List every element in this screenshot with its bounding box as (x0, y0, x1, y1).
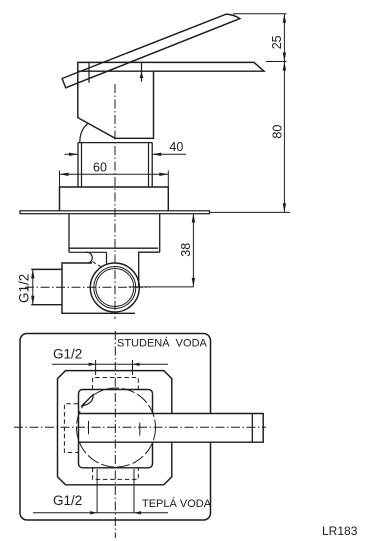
svg-text:60: 60 (93, 160, 107, 174)
svg-text:G1/2: G1/2 (53, 346, 82, 361)
dimension 60 line (60, 173, 169, 175)
connection circle inner (96, 269, 134, 307)
inlet port G1/2 (side view) (31, 269, 62, 304)
dimension 80 arrow down (283, 203, 286, 212)
port dimension line (32, 269, 34, 304)
connection circle outer (90, 263, 139, 312)
extension line to 38 dim (129, 286, 194, 288)
dimension 25 arrow down (283, 53, 286, 62)
neck outer right (151, 143, 153, 187)
dimension 25 arrow up (283, 14, 286, 23)
in-wall housing rectangle (69, 214, 160, 253)
dimension 40 arrow right (152, 153, 161, 156)
handle bar front (79, 414, 264, 443)
cold G1/2 dimension line (52, 363, 168, 365)
svg-text:40: 40 (169, 140, 183, 154)
svg-text:G1/2: G1/2 (53, 493, 82, 508)
port dimension arrow up (31, 269, 34, 278)
hot inlet extension left (96, 469, 98, 513)
dimension 38 arrow down (192, 278, 195, 287)
flange (60 wide) (60, 187, 169, 211)
cartridge stem vertical (106, 252, 108, 263)
crescent highlight (82, 395, 93, 406)
wall plate front (20, 334, 211, 521)
dimension 40 line left segment (65, 153, 79, 155)
dimension 40 arrow left (69, 153, 78, 156)
cold inlet extension left (95, 360, 97, 375)
hot inlet extension right (133, 469, 135, 513)
cold inlet extension right (132, 360, 134, 375)
dimension 60 arrow right (159, 173, 168, 176)
dimension 80 line (283, 62, 285, 213)
dimension 40 line right segment (152, 153, 186, 155)
neck inner left (81, 143, 83, 187)
cold dim arrow left (89, 363, 96, 366)
dimension 60 extension left (59, 171, 61, 188)
svg-text:25: 25 (270, 35, 284, 49)
connection circle middle (94, 267, 136, 309)
dimension 25 extension top (233, 13, 287, 15)
small up arrow on base edge (140, 72, 144, 78)
svg-text:TEPLÁ VODA: TEPLÁ VODA (142, 497, 212, 510)
svg-text:80: 80 (270, 125, 284, 139)
dimension 60 arrow left (60, 173, 69, 176)
housing lip left (69, 251, 107, 253)
dome arc behind chamfer (80, 124, 88, 144)
cover cap band (top plate of body, side view) (78, 62, 264, 71)
wall line extension right (210, 211, 291, 213)
port dimension arrow down (31, 296, 34, 305)
centerline horizontal through port (25, 286, 150, 288)
dimension 38 line (192, 214, 194, 287)
housing lip right step (139, 252, 160, 287)
tick left on centerline (88, 421, 90, 434)
hidden edge dashed diagonal (92, 262, 100, 267)
hot G1/2 dimension line (33, 512, 168, 514)
wall plate bar (20, 211, 210, 214)
neck (40 wide) outer left (77, 143, 79, 187)
svg-text:38: 38 (179, 243, 193, 257)
dimension 60 extension right (167, 171, 169, 188)
lever handle (side view) (62, 14, 240, 88)
neck top edge (78, 142, 152, 144)
cold dim arrow right (133, 363, 140, 366)
dimension 25/80 extension middle (266, 61, 287, 63)
side port hidden thread dashed (left) (64, 404, 78, 453)
cartridge tab semicircle (86, 252, 93, 263)
hot dim arrow left (90, 511, 97, 514)
neck inner right (148, 143, 150, 187)
centerline vertical (top view) (114, 84, 116, 319)
dimension 38 arrow up (192, 214, 195, 223)
svg-text:G1/2: G1/2 (16, 274, 31, 303)
valve body block (side view) (62, 263, 135, 313)
hot inlet hidden thread dashed (93, 468, 139, 480)
centerline horizontal (front view) (14, 426, 266, 428)
dimension 80 arrow up (283, 62, 286, 71)
svg-text:LR183: LR183 (322, 524, 358, 538)
tick right on centerline (139, 423, 141, 436)
mixer body (side view) (78, 71, 154, 138)
svg-text:STUDENÁ VODA: STUDENÁ VODA (117, 336, 208, 349)
hot dim arrow right (134, 511, 141, 514)
dimension 25 line (283, 14, 285, 62)
lever base cylinder edge right (141, 63, 143, 82)
escutcheon square chamfered (58, 371, 172, 485)
inner rounded square (79, 390, 153, 468)
dome circle phantom (77, 388, 156, 467)
lever base cylinder edge left (88, 63, 90, 83)
centerline vertical (front view) (114, 331, 116, 538)
cold inlet hidden thread dashed (93, 378, 139, 390)
handle end cap line (251, 414, 253, 443)
